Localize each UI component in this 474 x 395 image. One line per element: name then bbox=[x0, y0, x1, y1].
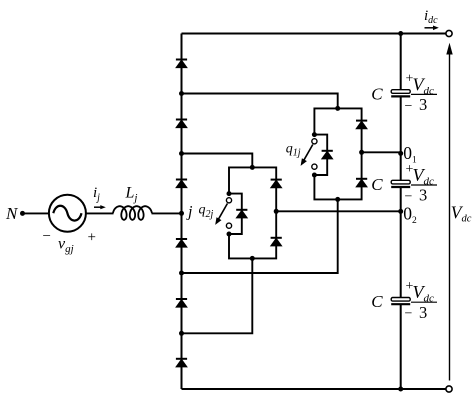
node q2j right midpoint bbox=[274, 209, 279, 214]
svg-text:Vdc: Vdc bbox=[413, 74, 435, 97]
terminal dc- open circle bbox=[446, 386, 452, 392]
node q1j switch bottom junction bbox=[312, 173, 317, 178]
wire capacitor rail seg4 bbox=[400, 305, 402, 389]
node j (ac terminal) bbox=[179, 211, 184, 216]
switch q1j bottom contact bbox=[312, 164, 317, 169]
node q1j right midpoint bbox=[359, 150, 364, 155]
label +Vdc/3 of C3 bbox=[405, 279, 438, 322]
svg-text:Vdc: Vdc bbox=[413, 282, 435, 305]
label +Vdc/3 of C1 bbox=[405, 71, 438, 114]
wire tap4 to q2j bottom bbox=[182, 258, 253, 333]
svg-text:02: 02 bbox=[403, 203, 417, 226]
svg-text:Lj: Lj bbox=[125, 185, 138, 205]
svg-text:−: − bbox=[405, 189, 413, 204]
wire cell q1j bottom edge bbox=[314, 152, 361, 199]
diode q2j outer bottom bbox=[271, 238, 282, 246]
svg-text:−: − bbox=[405, 99, 413, 114]
switch q2j bottom contact bbox=[226, 223, 231, 228]
node q2j switch top junction bbox=[227, 191, 232, 196]
wire q1j midpoint to node O1 bbox=[362, 151, 401, 153]
svg-text:q2j: q2j bbox=[199, 203, 214, 221]
diode D5 (left clamp string) bbox=[176, 299, 187, 307]
svg-text:3: 3 bbox=[419, 186, 427, 205]
svg-text:C: C bbox=[371, 175, 383, 194]
svg-text:Vdc: Vdc bbox=[451, 202, 472, 224]
capacitor C3 bbox=[391, 298, 410, 305]
node N bbox=[20, 211, 25, 216]
ac source v_gj circle bbox=[49, 195, 86, 232]
node q2j bottom center bbox=[250, 256, 255, 261]
wire capacitor rail seg2 bbox=[400, 97, 402, 181]
capacitor C2 bbox=[391, 180, 410, 187]
svg-text:N: N bbox=[5, 204, 19, 223]
node tap3 (D4-D5 junction) bbox=[179, 271, 184, 276]
switch q2j blade with arrow bbox=[215, 204, 227, 225]
capacitor C1 bbox=[391, 90, 410, 97]
wire N to source bbox=[23, 212, 50, 214]
node q1j bottom center bbox=[335, 197, 340, 202]
node tap1 (D1-D2 junction) bbox=[179, 91, 184, 96]
wire left diode-string rail bbox=[181, 34, 183, 390]
diode antiparallel of q2j bbox=[236, 210, 247, 218]
svg-text:idc: idc bbox=[424, 8, 438, 26]
node O1 bbox=[398, 151, 403, 156]
wire q1j inner diode branch bbox=[314, 135, 327, 175]
inductor L_j coil bbox=[113, 206, 152, 220]
diode q1j outer bottom bbox=[356, 179, 367, 187]
diode D3 (left clamp string) bbox=[176, 180, 187, 188]
switch q1j top contact bbox=[312, 139, 317, 144]
node q1j switch top junction bbox=[312, 132, 317, 137]
svg-text:C: C bbox=[371, 292, 383, 311]
wire bottom rail (dc- bus) bbox=[182, 388, 447, 390]
wire tap2 to q2j top bbox=[182, 154, 253, 168]
node dc- junction bbox=[398, 387, 403, 392]
wire tap3 to q1j bottom bbox=[182, 199, 338, 273]
svg-text:+: + bbox=[88, 230, 96, 246]
node q2j switch bottom junction bbox=[227, 232, 232, 237]
switch q1j blade with arrow bbox=[301, 145, 313, 166]
node O2 bbox=[398, 209, 403, 214]
wire cell q2j bottom edge bbox=[229, 211, 276, 258]
node tap2 (D2-D3 junction) bbox=[179, 151, 184, 156]
svg-text:j: j bbox=[186, 203, 193, 220]
node q2j top center bbox=[250, 165, 255, 170]
wire cell q2j top edge bbox=[229, 167, 276, 211]
diode D4 (left clamp string) bbox=[176, 239, 187, 247]
wire capacitor rail seg1 bbox=[400, 34, 402, 91]
svg-text:−: − bbox=[405, 307, 413, 322]
diode q1j outer top bbox=[356, 121, 367, 129]
svg-text:vgj: vgj bbox=[58, 236, 74, 256]
node tap4 (D5-D6 junction) bbox=[179, 331, 184, 336]
svg-text:3: 3 bbox=[419, 303, 427, 322]
ac source sine symbol bbox=[53, 206, 81, 221]
wire capacitor rail seg3 bbox=[400, 188, 402, 298]
diode q2j outer top bbox=[271, 180, 282, 188]
wire q2j inner diode branch bbox=[229, 194, 242, 234]
svg-text:3: 3 bbox=[419, 95, 427, 114]
switch q2j top contact bbox=[226, 198, 231, 203]
arrow for i_j bbox=[94, 205, 106, 209]
svg-text:C: C bbox=[371, 84, 383, 103]
svg-text:q1j: q1j bbox=[286, 141, 301, 158]
diode D1 (left clamp string) bbox=[176, 60, 187, 68]
svg-text:01: 01 bbox=[403, 143, 417, 166]
wire cell q1j top edge bbox=[314, 108, 361, 152]
diode antiparallel of q1j bbox=[322, 151, 333, 159]
diode D6 (left clamp string) bbox=[176, 359, 187, 367]
vdc measurement arrow line bbox=[446, 43, 452, 381]
node q1j top center bbox=[335, 106, 340, 111]
wire tap1 to q1j top bbox=[182, 94, 338, 109]
wire inductor to node j bbox=[152, 212, 182, 214]
node dc+ junction bbox=[398, 31, 403, 36]
svg-text:Vdc: Vdc bbox=[413, 165, 435, 188]
arrow for i_dc bbox=[425, 26, 439, 31]
wire q2j midpoint to node O2 bbox=[276, 210, 401, 212]
terminal dc+ open circle bbox=[446, 30, 452, 36]
wire top rail (dc+ bus) bbox=[182, 33, 447, 35]
label +Vdc/3 of C2 bbox=[405, 162, 438, 205]
wire source to inductor bbox=[86, 212, 114, 214]
svg-text:−: − bbox=[43, 229, 51, 245]
svg-text:ij: ij bbox=[93, 185, 100, 204]
diode D2 (left clamp string) bbox=[176, 120, 187, 128]
